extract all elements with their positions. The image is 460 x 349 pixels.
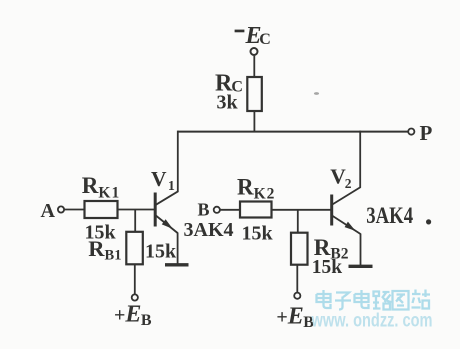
terminal +EB right — [294, 293, 300, 299]
resistor RB1 — [126, 232, 143, 264]
svg-text:3AK4: 3AK4 — [366, 203, 413, 228]
wire: V2 emitter vertical — [360, 234, 362, 266]
hanzi 站 — [412, 290, 431, 309]
V1 emitter arrow — [162, 219, 173, 229]
wire: -EC terminal to RC — [253, 56, 255, 77]
svg-text:www. ondzz. com: www. ondzz. com — [311, 311, 433, 332]
wire: V1 emitter vertical — [177, 233, 179, 265]
ground V2 — [349, 265, 373, 268]
V1 emitter diagonal — [156, 216, 178, 234]
resistor RC — [247, 77, 261, 111]
V2 emitter diagonal — [332, 216, 360, 234]
wire: RK2 to V2 base — [272, 209, 332, 211]
transistor V2 base bar — [330, 195, 333, 226]
resistor RK1 — [85, 201, 118, 218]
wire: RC to bus — [253, 111, 255, 132]
dot after 3AK4 — [426, 219, 431, 224]
hanzi 电 — [355, 290, 369, 308]
svg-text:C: C — [259, 31, 271, 48]
wire: RB1 to +EB — [134, 264, 136, 294]
hanzi 路 — [373, 292, 392, 310]
output terminal P — [408, 129, 414, 135]
wire: collector bus — [178, 131, 408, 133]
svg-text:P: P — [420, 121, 433, 145]
label -EC — [235, 30, 245, 33]
svg-text:A: A — [41, 200, 56, 222]
resistor RK2 — [240, 202, 272, 218]
watermark line1: 电子电路图站 (drawn strokes) — [317, 290, 431, 310]
svg-text:3k: 3k — [217, 92, 239, 114]
V1 collector diagonal — [156, 191, 179, 205]
ground V1 — [165, 263, 189, 266]
dust speck — [314, 92, 319, 95]
V2 collector diagonal — [332, 187, 360, 205]
wire: RB1 drop — [134, 210, 136, 232]
wire: V2 collector vertical — [359, 131, 361, 188]
V2 emitter arrow — [345, 222, 356, 231]
wire: RB2 drop — [297, 210, 299, 233]
svg-text:15k: 15k — [145, 241, 177, 263]
terminal +EB left — [132, 294, 138, 300]
input terminal A — [58, 206, 64, 212]
svg-text:15k: 15k — [312, 257, 343, 278]
wire: A to RK1 — [64, 209, 84, 211]
svg-text:3AK4: 3AK4 — [184, 219, 234, 241]
resistor RB2 — [291, 233, 308, 265]
hanzi 电 — [317, 290, 331, 308]
wire: B to RK2 — [220, 209, 240, 211]
wire: RK1 to V1 base — [118, 209, 155, 211]
hanzi 子 — [335, 293, 351, 310]
wire: RB2 to +EB — [296, 265, 298, 293]
svg-text:B: B — [198, 200, 210, 220]
hanzi 图 — [393, 291, 409, 310]
wire: V1 collector vertical — [177, 131, 179, 192]
svg-text:15k: 15k — [242, 223, 274, 245]
transistor V1 base bar — [154, 193, 157, 227]
input terminal B — [214, 207, 220, 213]
power terminal -EC — [251, 48, 258, 55]
